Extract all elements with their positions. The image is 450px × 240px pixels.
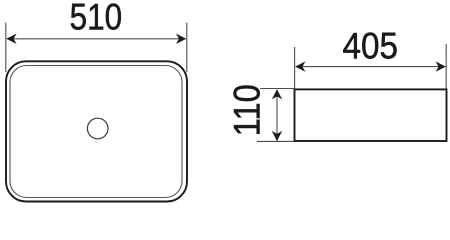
extension line right of 405 dim (445, 44, 447, 90)
svg-text:110: 110 (227, 84, 268, 136)
extension line right of 510 dim (186, 23, 188, 73)
arrow left (510) (6, 34, 16, 44)
svg-text:405: 405 (343, 26, 399, 67)
arrow up (110) (272, 89, 282, 99)
dimension line 510 (7, 38, 186, 40)
arrow down (110) (272, 131, 282, 141)
svg-text:510: 510 (70, 0, 123, 38)
extension line bottom of 110 dim (257, 140, 294, 142)
extension line left of 405 dim (294, 47, 296, 89)
basin outer rim (rounded rect) (6, 61, 187, 201)
extension line top of 110 dim (260, 88, 294, 90)
arrow right (405) (436, 61, 446, 71)
dimension line 405 (296, 66, 445, 68)
basin inner rim (rounded rect) (10, 66, 182, 198)
basin side profile rectangle (295, 89, 447, 141)
arrow left (405) (295, 61, 305, 71)
drain hole circle (87, 118, 108, 139)
arrow right (510) (176, 34, 186, 44)
extension line left of 510 dim (5, 23, 7, 73)
dimension line 110 (276, 90, 278, 141)
